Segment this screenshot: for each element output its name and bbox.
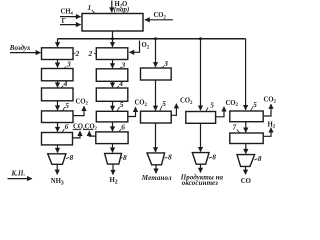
label 8 col5 leader — [254, 159, 257, 160]
wire 5 to 6 col1 — [57, 123, 59, 132]
svg-text:O2: O2 — [142, 42, 150, 50]
label 6 col2 leader — [119, 129, 122, 132]
wire CO2 vent col3 — [171, 104, 176, 116]
svg-text:Г: Г — [62, 18, 66, 25]
wire 5 to compressor col4 — [200, 123, 202, 151]
wire gas feed arrow — [60, 24, 81, 26]
wire CO CO2 label underline — [73, 129, 81, 131]
wire H2 vent col5 — [263, 128, 271, 137]
svg-text:3: 3 — [163, 59, 168, 68]
svg-text:NH3: NH3 — [51, 178, 64, 187]
wire air feed arrow — [10, 52, 40, 54]
svg-text:оксосинтез: оксосинтез — [182, 179, 218, 187]
wire CO output arrow — [245, 166, 247, 174]
wire O2 feed arrow — [130, 41, 140, 53]
svg-text:CO2: CO2 — [135, 100, 148, 108]
svg-text:8: 8 — [123, 153, 127, 162]
wire 5 to 7 col5 — [245, 122, 247, 133]
wire 6 to compressor col1 — [57, 145, 59, 153]
svg-text:5: 5 — [65, 101, 69, 110]
label 8 col4 leader — [209, 157, 212, 158]
wire distribution bus — [58, 38, 246, 40]
wire 3 to 5 col3 — [155, 80, 157, 110]
wire 6 to compressor col2 — [112, 144, 114, 153]
node junction col3 on bus — [154, 37, 157, 40]
block 4 col1 — [42, 88, 74, 101]
wire 5 to compressor col3 — [155, 123, 157, 152]
svg-text:8: 8 — [212, 152, 216, 161]
wire 2 to 3 col2 — [112, 60, 114, 69]
wire CO CO2 vent from block 6 col1 — [73, 131, 81, 138]
svg-text:2: 2 — [75, 49, 80, 58]
svg-text:8: 8 — [258, 154, 262, 163]
wire 3 to 4 col2 — [112, 81, 114, 87]
block 2 col1 — [42, 48, 74, 60]
label 8 col3 leader — [165, 157, 168, 158]
svg-text:К.П.: К.П. — [11, 169, 26, 177]
svg-text:(пар): (пар) — [114, 5, 130, 13]
label 4 col2 leader — [117, 86, 120, 88]
svg-text:Воздух: Воздух — [9, 44, 31, 52]
wire bus to block 2 col1 — [57, 39, 59, 47]
label 3 col3 leader — [161, 66, 164, 68]
label 8 col1 leader — [66, 157, 69, 158]
svg-text:4: 4 — [63, 79, 68, 88]
svg-text:6: 6 — [121, 122, 125, 131]
node junction box1 output on bus — [111, 37, 114, 40]
wire H2 output arrow — [112, 164, 114, 175]
label 7 col5 leader — [237, 130, 240, 133]
svg-text:CH4: CH4 — [61, 9, 74, 16]
wire CH4 feed arrow — [60, 16, 81, 18]
label 5 col3 leader — [160, 106, 163, 112]
wire H2O steam feed arrow — [111, 1, 113, 13]
svg-text:CO2: CO2 — [76, 98, 89, 106]
svg-text:CO2: CO2 — [154, 12, 167, 20]
svg-text:5: 5 — [253, 100, 257, 109]
wire CO2 vent col4 — [216, 107, 224, 117]
block 5 col5 — [230, 111, 263, 122]
label 5 col4 leader — [206, 108, 209, 112]
compressor 8 col1 — [48, 154, 66, 165]
svg-text:CO2: CO2 — [226, 100, 239, 108]
svg-text:1: 1 — [88, 3, 92, 12]
svg-text:Метанол: Метанол — [141, 174, 172, 182]
compressor 8 col5 — [237, 155, 255, 167]
wire K.P. arrow — [8, 178, 32, 180]
label 3 col2 leader — [119, 67, 122, 69]
label 1 leader — [92, 10, 95, 14]
wire bus to block 5 col5 — [245, 39, 247, 110]
svg-text:H2: H2 — [110, 177, 118, 186]
svg-text:CO: CO — [241, 178, 251, 185]
block 5 col4 — [186, 112, 216, 124]
block 6 col1 — [42, 133, 73, 145]
label 3 col1 leader — [64, 67, 67, 69]
label 5 col1 leader — [62, 107, 65, 111]
svg-text:CO,CO2: CO,CO2 — [73, 124, 97, 131]
label 2 col2 leader — [94, 53, 96, 54]
svg-text:2: 2 — [88, 49, 93, 58]
block 5 col2 — [96, 111, 128, 122]
wire 7 to compressor col5 — [245, 144, 247, 154]
svg-text:5: 5 — [120, 100, 124, 109]
label 5 col2 leader — [117, 107, 120, 111]
svg-text:CO2: CO2 — [264, 96, 277, 104]
svg-text:4: 4 — [118, 79, 123, 88]
compressor 8 col4 — [192, 153, 209, 165]
wire bus to block 5 col4 — [200, 39, 202, 111]
label 4 col1 leader — [61, 86, 64, 88]
wire CO2 recycle feed arrow — [145, 19, 173, 21]
label 5 col5 leader — [250, 107, 253, 112]
svg-text:7: 7 — [233, 122, 237, 131]
wire CO2 vent col2 — [128, 107, 136, 116]
wire reformer output to bus and into block 2 col2 — [112, 31, 114, 47]
label 2 col1 leader — [73, 53, 75, 54]
svg-text:3: 3 — [66, 60, 71, 69]
svg-text:8: 8 — [70, 153, 74, 162]
svg-text:3: 3 — [121, 60, 126, 69]
wire 5 to 6 col2 — [112, 122, 114, 131]
block 3 col3 — [141, 68, 172, 80]
wire CO2 vent col1 — [73, 106, 84, 115]
block 4 col2 — [96, 88, 128, 101]
wire 4 to 5 col2 — [112, 101, 114, 110]
wire methanol output arrow — [155, 165, 157, 173]
wire CO CO2 vent from block 6 col2 — [89, 131, 96, 136]
svg-text:5: 5 — [162, 99, 166, 108]
node junction col4 on bus — [199, 37, 202, 40]
wire bus to block 3 col3 — [155, 39, 157, 67]
svg-text:5: 5 — [210, 101, 214, 110]
compressor 8 col3 — [147, 153, 165, 165]
svg-text:8: 8 — [168, 153, 172, 162]
label 8 col2 leader — [120, 158, 123, 159]
block 6 col2 — [96, 132, 128, 144]
block 5 col3 — [141, 111, 172, 123]
block 3 col2 — [96, 69, 128, 82]
block 2 col2 — [96, 48, 128, 60]
wire 3 to 4 col1 — [57, 81, 59, 87]
block 5 col1 — [42, 111, 74, 123]
block 3 col1 — [42, 69, 74, 81]
wire CO2 vent col5 — [263, 104, 271, 116]
block 7 col5 — [230, 133, 263, 144]
wire 2 to 3 col1 — [57, 60, 59, 68]
label 6 col1 leader — [62, 129, 65, 133]
wire NH3 output arrow — [56, 164, 58, 174]
svg-text:CO2: CO2 — [180, 98, 193, 106]
svg-text:6: 6 — [65, 122, 69, 131]
wire 4 to 5 col1 — [57, 101, 59, 110]
block 1 reformer — [82, 14, 143, 32]
wire oxo products output arrow — [200, 164, 202, 172]
compressor 8 col2 — [105, 153, 122, 164]
